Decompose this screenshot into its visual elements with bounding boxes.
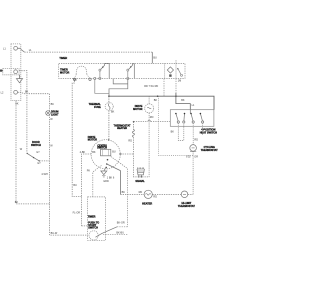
svg-text:FUSE: FUSE (94, 106, 101, 109)
svg-text:RD: RD (194, 139, 198, 142)
node bus-heat (175, 95, 177, 97)
terminal N sub-box (3, 69, 19, 75)
svg-text:GY: GY (37, 162, 41, 165)
svg-text:RD: RD (128, 139, 132, 142)
wire timer inner step (113, 79, 128, 84)
start switch circle (89, 231, 98, 240)
wire to cycling thermostat (192, 123, 194, 145)
terminal L1 (14, 46, 18, 50)
wire BU-W bottom (51, 234, 88, 236)
wire heat switch feed (176, 96, 190, 110)
svg-text:BK: BK (154, 99, 158, 102)
drum light wire (48, 94, 50, 235)
svg-text:RD: RD (150, 116, 154, 119)
wire to cycling thermostat (dotted) (158, 96, 193, 155)
motor switch bottom nodes (107, 159, 109, 161)
svg-text:BK: BK (122, 191, 126, 194)
svg-text:SWITCH: SWITCH (31, 144, 41, 147)
motor switch inner contact box (101, 149, 111, 156)
wire motor switch right lead (120, 153, 133, 155)
wire 1M drop (175, 78, 177, 96)
wire BK from block bottom down (16, 101, 51, 204)
svg-text:BU-W: BU-W (51, 232, 58, 235)
timer motor terminals (73, 78, 75, 80)
wire motor sw left-bottom to start box (93, 166, 102, 197)
wire L2 to drum light drop (18, 92, 50, 93)
heat switch pole 4 stub (202, 123, 204, 135)
wire N to door switch (19, 71, 27, 153)
wire resistor drop (163, 78, 165, 96)
contact A (99, 69, 101, 71)
timer motor BU wire (72, 81, 81, 197)
svg-text:MOTOR: MOTOR (60, 71, 69, 74)
wire signal (133, 176, 149, 178)
wire L1 top run dashed (24, 51, 152, 53)
svg-text:BK: BK (51, 103, 55, 106)
thermostat heater (133, 121, 135, 123)
drive motor (148, 96, 150, 104)
diamond indicator light (165, 63, 176, 78)
svg-text:MOTOR: MOTOR (88, 139, 97, 142)
svg-text:RD 7.5Ω RD: RD 7.5Ω RD (144, 85, 158, 88)
svg-text:GRD: GRD (103, 180, 109, 183)
svg-text:BU: BU (73, 184, 77, 187)
svg-text:HEATER: HEATER (142, 202, 152, 205)
svg-text:FL-OR: FL-OR (73, 211, 81, 214)
wire 1M stub above box (175, 60, 177, 63)
timer motor dome (76, 66, 87, 74)
ground (19, 75, 21, 79)
wire fuse to motor switch (108, 111, 110, 141)
heater element (144, 190, 152, 198)
svg-text:4-WH: 4-WH (41, 173, 48, 176)
drum light lamp (46, 111, 51, 116)
timer box (59, 63, 185, 78)
terminal block TB outer rect (11, 44, 21, 101)
svg-text:MOTOR: MOTOR (133, 108, 142, 111)
wire cycling therm down (192, 151, 194, 194)
terminal L2 (14, 90, 18, 94)
push to start box (88, 197, 106, 240)
svg-text:BU: BU (74, 78, 78, 81)
contact C (181, 74, 183, 76)
svg-text:BK-BU: BK-BU (116, 231, 124, 234)
svg-text:BU: BU (112, 151, 116, 154)
svg-text:4-BK: 4-BK (80, 151, 86, 154)
main bus L1 (109, 96, 214, 110)
heat switch unused poles U (178, 123, 184, 140)
neutral entry (0, 70, 3, 72)
wire into start box left (82, 225, 88, 227)
wire L1 drop to timer (151, 52, 153, 63)
svg-text:SWITCH: SWITCH (88, 226, 98, 229)
thermal fuse (108, 96, 110, 102)
ground at motor (104, 168, 106, 171)
svg-text:V15: V15 (186, 155, 191, 158)
wire L1 to line (18, 48, 25, 52)
node bus-motor (157, 95, 159, 97)
heater line (120, 193, 144, 195)
svg-text:BU: BU (153, 56, 157, 59)
wire motor down to signal (148, 113, 150, 177)
svg-text:THERMOSTAT: THERMOSTAT (178, 205, 195, 208)
svg-text:RD: RD (139, 191, 143, 194)
svg-text:GY: GY (36, 151, 40, 154)
svg-text:LIGHT: LIGHT (51, 113, 59, 116)
start switch blade (96, 227, 118, 237)
svg-text:1M: 1M (178, 80, 181, 83)
signal buzzer (137, 167, 144, 169)
svg-text:OR: OR (194, 155, 198, 158)
svg-text:TIMER: TIMER (59, 57, 67, 60)
svg-text:TIMER: TIMER (88, 216, 96, 219)
contact B (127, 69, 129, 71)
heat switch box (170, 110, 214, 127)
svg-text:SIGNAL: SIGNAL (135, 180, 145, 183)
heat switch contacts (176, 114, 204, 124)
wire motor switch left lead (82, 154, 92, 226)
svg-text:THERMOSTAT: THERMOSTAT (201, 149, 218, 152)
svg-text:PK: PK (87, 169, 91, 172)
svg-text:BK-OR: BK-OR (117, 221, 125, 224)
svg-text:BK: BK (25, 90, 29, 93)
svg-text:BK: BK (181, 99, 185, 102)
svg-text:BK: BK (111, 110, 115, 113)
hi-limit thermostat (181, 191, 188, 198)
wire door switch out (39, 160, 49, 162)
node bus-fuse (108, 95, 110, 97)
svg-text:BK: BK (15, 201, 19, 204)
svg-text:HEATER: HEATER (117, 127, 127, 130)
motor switch circle (91, 140, 120, 169)
timer terminal 2M (94, 77, 96, 79)
svg-text:BK: BK (92, 151, 96, 154)
wire motor sw to start switch (111, 157, 128, 227)
wire contact A to bus (95, 80, 109, 94)
wire motor sw to heater (solid) (107, 164, 121, 194)
terminal N (14, 70, 18, 74)
svg-text:RD: RD (153, 196, 157, 199)
svg-text:BK: BK (171, 131, 175, 134)
wire contact B to bus (109, 80, 128, 97)
cycling thermostat (190, 145, 197, 152)
